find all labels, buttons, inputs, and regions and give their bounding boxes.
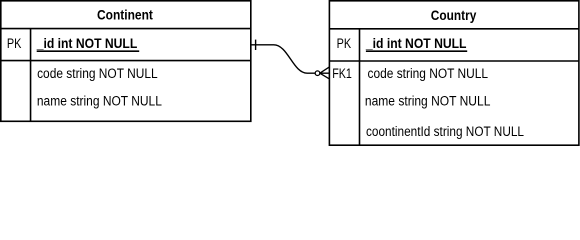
svg-text:Continent: Continent [97,8,153,23]
svg-text:_id int NOT NULL: _id int NOT NULL [36,36,138,51]
svg-text:PK: PK [7,36,22,51]
svg-text:code string NOT NULL: code string NOT NULL [368,66,489,81]
zero circle of crow's foot [315,71,320,76]
svg-text:Country: Country [431,8,477,23]
entity table Continent [1,1,251,122]
svg-text:_id int NOT NULL: _id int NOT NULL [365,36,467,51]
svg-text:name string NOT NULL: name string NOT NULL [365,93,491,108]
svg-text:code string NOT NULL: code string NOT NULL [37,66,158,81]
svg-text:name string NOT NULL: name string NOT NULL [37,93,162,108]
entity table Country [329,1,579,145]
underline of _id field (Country) [366,50,467,52]
one-cardinality tick [255,40,257,50]
underline of _id field (Continent) [37,50,140,52]
crow's foot many prongs [320,67,330,79]
svg-text:coontinentId string NOT NULL: coontinentId string NOT NULL [366,124,524,139]
svg-text:FK1: FK1 [332,66,352,81]
relationship wire Continent-Country [251,45,316,73]
svg-text:PK: PK [337,36,352,51]
